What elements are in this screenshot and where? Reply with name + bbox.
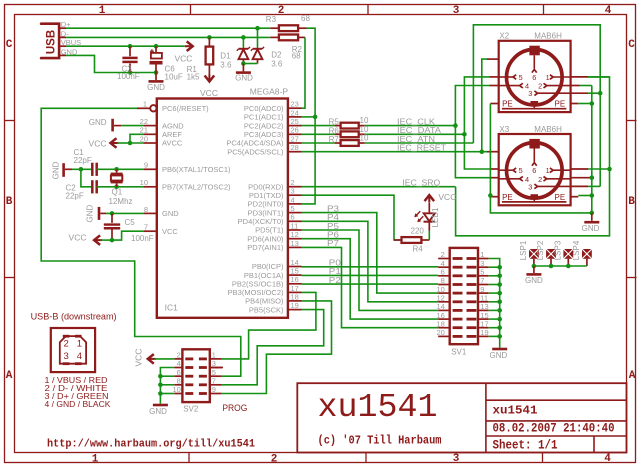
wire SV2 ground link [160, 384, 174, 386]
resistor R1 1k5 pull-up [208, 37, 210, 46]
svg-text:VCC: VCC [438, 192, 456, 202]
wire R3 to IC pin 24 and pin 4 INT0 [302, 28, 316, 204]
junction SV1 ground rail [497, 300, 502, 305]
svg-text:9: 9 [144, 161, 148, 170]
X3 pin 5 lead [499, 169, 513, 171]
IC1 pin 1 PC6(/RESET) [137, 107, 150, 109]
X3 pin 4 lead [499, 178, 520, 180]
SV1 pin 7 right [478, 284, 489, 286]
wire X2 pin3 link [588, 92, 600, 94]
wire X2 pin4 stub entry [490, 85, 499, 87]
svg-text:X3: X3 [499, 125, 509, 134]
svg-text:PB5(SCK): PB5(SCK) [249, 305, 284, 314]
wire MOSI PB3 to SV2 pin1 [222, 292, 316, 359]
svg-text:PD7(AIN1): PD7(AIN1) [247, 243, 284, 252]
svg-text:xu1541: xu1541 [318, 389, 438, 426]
svg-text:4: 4 [177, 359, 181, 368]
X2 shield circle [507, 49, 563, 105]
wire net P1 PB1 to SV1 pin6 [302, 274, 439, 276]
wire SV1 ground rail link [489, 301, 500, 303]
SV1 pin 1 right [478, 258, 489, 260]
svg-text:xu1541: xu1541 [493, 404, 538, 418]
svg-text:P1: P1 [329, 267, 342, 276]
SV1 pin 4 left [438, 266, 450, 268]
svg-text:X2: X2 [499, 32, 509, 41]
vcc arrow below R1 [205, 76, 215, 82]
IC1 pin 15 PB1(OC1A) [288, 274, 302, 276]
wire IEC_CLK from pin 25 [302, 125, 335, 127]
wire C2 to pin 10 XTAL2 [97, 186, 144, 188]
svg-text:VCC: VCC [175, 54, 193, 64]
svg-text:68: 68 [301, 14, 310, 23]
wire IEC_DATA vertical [464, 77, 489, 169]
svg-text:10: 10 [360, 116, 369, 125]
junction SV1 ground rail [497, 282, 502, 287]
svg-text:R7: R7 [329, 135, 340, 144]
svg-text:PB4(MISO): PB4(MISO) [245, 297, 284, 306]
svg-text:PE: PE [502, 100, 513, 109]
USB pin D+ [59, 27, 66, 29]
wire IEC_ATN over X2 [473, 25, 600, 187]
SV2 pin 5 right [210, 375, 222, 377]
wire X2 pin1 to SRQ rail [588, 76, 610, 78]
IC1 pin 5 PD3(INT1) [288, 212, 302, 214]
svg-text:P4: P4 [327, 213, 340, 222]
svg-text:1: 1 [546, 73, 550, 82]
wire IEC_DATA to X2 X3 pin5 [365, 133, 465, 135]
svg-text:PD5(T1): PD5(T1) [255, 226, 284, 235]
IC1 pin 12 PD6(AIN0) [288, 238, 302, 240]
svg-text:PE: PE [555, 193, 566, 202]
wire IEC_SRQ from pin 2 [302, 186, 456, 188]
svg-text:3.6: 3.6 [271, 59, 283, 68]
X3 shield pin [531, 194, 539, 196]
junction PE rail bottom [590, 211, 595, 216]
IC1 pin 23 PC0(ADC0) [288, 107, 302, 109]
ground symbol at AGND pin 22 [111, 119, 114, 132]
svg-text:PE: PE [502, 193, 513, 202]
SV2 pin 9 right [210, 393, 222, 395]
svg-text:1: 1 [99, 5, 106, 17]
svg-text:P3: P3 [327, 204, 340, 213]
X3 pin 2 lead [547, 178, 571, 180]
svg-text:3.6: 3.6 [220, 60, 232, 69]
svg-text:24: 24 [291, 108, 299, 117]
wire PD1 to R4 [302, 195, 402, 240]
junction R1 top on D- [207, 35, 212, 40]
svg-text:LSP1: LSP1 [519, 240, 528, 260]
svg-text:GND: GND [162, 209, 179, 218]
junction C6 bottom [154, 70, 159, 75]
X3 pin6 stub left [487, 151, 499, 153]
SV2 pin 2 left [174, 358, 182, 360]
X2 pin 1 lead [553, 76, 571, 78]
SV1 pin 8 left [438, 284, 450, 286]
USB-B inner shape [60, 336, 86, 364]
wire X2 pin5 stub entry [490, 76, 499, 78]
wire GND down to C2 [81, 169, 91, 187]
wire AREF to AVCC [130, 134, 143, 143]
junction SV1 ground rail [497, 265, 502, 270]
wire R2 to IC pin 23 [302, 37, 306, 108]
wire PE ground rail right [591, 86, 593, 216]
svg-text:B: B [6, 196, 13, 208]
SV1 pin 9 right [478, 292, 489, 294]
junction D+ at pin 24 [313, 115, 318, 120]
X2 pin 3 stub [571, 92, 588, 94]
junction crystal top [114, 167, 119, 172]
svg-text:100nF: 100nF [131, 234, 154, 243]
junction zener anodes [241, 61, 246, 66]
svg-text:AGND: AGND [162, 121, 184, 130]
wire pin 24 stub link [302, 116, 316, 118]
USB-B connector drawing box [51, 328, 95, 372]
USB pin D- [59, 36, 66, 38]
wire SV1 ground rail link [489, 335, 500, 337]
wire IEC_DATA from pin 26 [302, 133, 335, 135]
svg-text:25: 25 [291, 117, 299, 126]
svg-text:R5: R5 [329, 118, 340, 127]
connector X3 MAB6H body [499, 134, 571, 205]
svg-text:1: 1 [143, 100, 147, 109]
zener diode D1 3.6 [242, 37, 244, 47]
ground symbol below LSP1 [533, 266, 535, 273]
svg-text:19: 19 [480, 328, 488, 337]
junction SV1 ground rail [497, 291, 502, 296]
SV2 pin 4 left [174, 367, 182, 369]
svg-text:2: 2 [271, 454, 278, 466]
svg-text:2: 2 [538, 175, 542, 184]
resistor R7 10 [335, 142, 341, 144]
IC1 pin 11 PD5(T1) [288, 229, 302, 231]
svg-text:A: A [629, 370, 636, 382]
svg-text:LED1: LED1 [431, 207, 440, 228]
X2 pin 1 stub [571, 76, 588, 78]
svg-text:13: 13 [291, 239, 299, 248]
svg-text:1: 1 [77, 339, 82, 350]
X3 PE bar [502, 201, 567, 203]
svg-text:VCC: VCC [134, 349, 144, 367]
IC1 pin 7 VCC [143, 230, 157, 232]
wire X3 PE right link [578, 195, 592, 197]
wire SV2 ground link [160, 393, 174, 395]
SV2 pin 6 left [174, 375, 182, 377]
wire SV1 ground rail link [489, 327, 500, 329]
svg-text:A: A [6, 370, 13, 382]
junction LSP1 [532, 264, 537, 269]
vcc arrow above LED1 [425, 195, 435, 201]
svg-text:18: 18 [436, 319, 444, 328]
SV2 pin 1 right [210, 358, 222, 360]
svg-text:MAB6H: MAB6H [534, 32, 562, 41]
svg-text:68: 68 [292, 52, 301, 61]
junction SV1 ground rail [497, 334, 502, 339]
wire X3 pin4 stub entry [490, 177, 499, 179]
IC1 pin 21 AREF [143, 133, 157, 135]
IC1 pin 26 PC3(ADC3) [288, 133, 302, 135]
svg-text:4: 4 [604, 453, 611, 465]
svg-text:LSP3: LSP3 [553, 240, 562, 260]
X3 index notch [529, 139, 539, 149]
resistor R5 10 [335, 125, 341, 127]
junction IEC_ATN at X2 pin3 [598, 91, 603, 96]
svg-text:PD2(INT0): PD2(INT0) [248, 200, 284, 209]
frame column ticks top [190, 5, 192, 15]
vcc arrow at SV2 pin2 [148, 354, 154, 364]
IC U1 MEGA8-P body [157, 99, 288, 318]
svg-text:IC1: IC1 [165, 303, 179, 313]
svg-text:4 / GND / BLACK: 4 / GND / BLACK [45, 399, 111, 409]
wire SV1 ground rail link [489, 318, 500, 320]
wire SCK PB5 to SV2 pin7 [222, 310, 324, 385]
wire net P6 PD6 to SV1 pin16 [302, 239, 439, 319]
svg-text:23: 23 [291, 100, 299, 109]
USB-B pad 4 [75, 362, 82, 365]
X3 pin 1 stub [571, 168, 588, 170]
svg-text:GND: GND [89, 118, 107, 127]
svg-text:1: 1 [480, 250, 484, 259]
svg-text:GND: GND [85, 204, 94, 222]
svg-text:USB: USB [46, 30, 58, 54]
X3 pin 6 lead [533, 149, 535, 162]
svg-text:PC6(/RESET): PC6(/RESET) [162, 104, 209, 113]
IC1 pin 14 PB0(ICP) [288, 266, 302, 268]
capacitor C5 100nF [111, 213, 113, 223]
svg-text:PC1(ADC1): PC1(ADC1) [244, 113, 284, 122]
IC1 pin 20 AVCC [143, 142, 157, 144]
svg-text:(c) '07 Till Harbaum: (c) '07 Till Harbaum [318, 435, 442, 448]
X3 pin 3 stub [571, 185, 588, 187]
X2 pin 2 lead [547, 85, 571, 87]
junction PE rail X2 PE right [590, 101, 595, 106]
capacitor C3 [129, 46, 131, 56]
wire PE rail left side [490, 104, 591, 213]
wire X3 pin3 link [588, 185, 600, 187]
resistor R2 68 [270, 36, 279, 38]
svg-text:7: 7 [212, 377, 216, 386]
SV1 pin 5 right [478, 275, 489, 277]
SV1 pin 2 left [438, 258, 450, 260]
X3 PE pin left [490, 196, 498, 198]
wire net VBUS horizontal [66, 45, 185, 47]
IC1 pin 13 PD7(AIN1) [288, 246, 302, 248]
svg-text:13: 13 [480, 302, 488, 311]
svg-text:R4: R4 [413, 245, 424, 254]
wire C1 to pin 9 XTAL1 [97, 168, 144, 170]
svg-text:2: 2 [278, 5, 285, 17]
svg-text:12Mhz: 12Mhz [109, 197, 133, 206]
X3 pin 1 lead [553, 169, 571, 171]
IC1 pin 17 PB3(MOSI/OC2) [288, 291, 302, 293]
wire R4 to LED cathode [428, 231, 430, 241]
wire IEC_RESET to X2 pin6 [482, 59, 487, 152]
wire IEC_RESET from pin 28 [302, 151, 488, 153]
svg-text:10: 10 [360, 125, 369, 134]
svg-text:MEGA8-P: MEGA8-P [250, 86, 289, 96]
svg-text:3: 3 [453, 5, 460, 17]
svg-text:1k5: 1k5 [187, 72, 200, 81]
resistor R3 68 [270, 27, 279, 29]
X2 pin 2 stub [571, 85, 580, 87]
svg-text:P2: P2 [329, 276, 342, 285]
svg-text:100nF: 100nF [117, 72, 140, 81]
IC1 pin 10 PB7(XTAL2/TOSC2) [143, 186, 157, 188]
svg-text:IEC_RESET: IEC_RESET [397, 144, 446, 153]
USB-B pad 1 [75, 335, 82, 338]
svg-text:1: 1 [92, 454, 99, 466]
svg-text:6: 6 [532, 166, 536, 175]
connector SV1 body [450, 248, 478, 344]
svg-text:5: 5 [480, 268, 484, 277]
wire SV2 ground chain [160, 368, 174, 404]
svg-text:Q1: Q1 [112, 188, 123, 197]
svg-text:17: 17 [480, 319, 488, 328]
X2 pin 6 lead [533, 55, 535, 68]
IC1 pin 6 PD4(XCK/T0) [288, 220, 302, 222]
SV2 pin 8 left [174, 384, 182, 386]
wire MISO PB4 to SV2 pin9 [222, 301, 332, 394]
svg-text:21: 21 [140, 126, 148, 135]
USB connector X1 body [41, 24, 59, 58]
junction SV1 ground rail [497, 274, 502, 279]
X2 index notch [529, 46, 539, 56]
SV1 pin 10 left [438, 292, 450, 294]
junction D1 on D- [241, 35, 246, 40]
SV1 pin 3 right [478, 266, 489, 268]
X2 shield pin [531, 101, 539, 103]
svg-text:C: C [6, 39, 13, 51]
junction IEC_SRQ at X3 pin1 [607, 167, 612, 172]
wire SV1 ground rail link [489, 266, 500, 268]
svg-text:3: 3 [453, 453, 460, 465]
SV1 pin 16 left [438, 318, 450, 320]
IC1 pin 19 PB5(SCK) [288, 309, 302, 311]
SV1 pin 13 right [478, 309, 489, 311]
SV1 pin 17 right [478, 327, 489, 329]
svg-text:18: 18 [291, 292, 299, 301]
SV1 pin 19 right [478, 335, 489, 337]
svg-text:GND: GND [147, 83, 165, 92]
svg-text:LSP2: LSP2 [536, 240, 545, 260]
svg-text:IEC_DATA: IEC_DATA [397, 126, 442, 135]
wire IEC_CLK vertical [455, 86, 489, 178]
ground symbol left of C1 C2 [62, 163, 65, 177]
resistor R4 220 [394, 239, 402, 241]
IC1 pin 27 PC4(ADC4/SDA) [288, 142, 302, 144]
junction SV2 ground chain [158, 391, 163, 396]
svg-text:PB1(OC1A): PB1(OC1A) [244, 271, 284, 280]
svg-text:6: 6 [291, 213, 295, 222]
junction LSP3 [566, 264, 571, 269]
svg-text:6: 6 [441, 268, 445, 277]
svg-text:P7: P7 [327, 239, 340, 248]
IC1 pin 4 PD2(INT0) [288, 203, 302, 205]
wire IEC_ATN to X2 X3 pin3 [365, 142, 474, 144]
svg-text:5: 5 [291, 204, 295, 213]
svg-text:http://www.harbaum.org/till/xu: http://www.harbaum.org/till/xu1541 [47, 439, 255, 451]
wire LSP ground bus [534, 265, 587, 267]
svg-text:P6: P6 [327, 231, 340, 240]
svg-text:PROG: PROG [222, 403, 247, 414]
svg-text:5: 5 [519, 166, 523, 175]
svg-text:9: 9 [212, 385, 216, 394]
frame row ticks right [627, 120, 637, 122]
wire SV2 ground link [160, 375, 174, 377]
svg-text:GND: GND [149, 407, 167, 416]
SV2 pin 3 stub [210, 367, 223, 369]
wire D2 anode to D1 anode [243, 63, 257, 65]
wire net D- horizontal [66, 36, 270, 38]
junction SV2 ground chain [158, 374, 163, 379]
svg-text:3: 3 [528, 182, 532, 191]
solder pad LSP1 [529, 249, 539, 259]
svg-text:28: 28 [291, 143, 299, 152]
X3 PE pin right [571, 196, 579, 198]
SV1 pin 15 right [478, 318, 489, 320]
crystal Q1 12Mhz [116, 169, 118, 172]
svg-text:08.02.2007 21:40:40: 08.02.2007 21:40:40 [493, 422, 615, 436]
svg-text:GND: GND [525, 276, 543, 285]
capacitor C1 22pF [91, 163, 94, 176]
svg-text:20: 20 [140, 134, 148, 143]
connector SV2 body [182, 349, 209, 402]
svg-text:19: 19 [291, 301, 299, 310]
vcc arrow at AVCC pin 20 [111, 138, 117, 148]
wire GND to pin 8 [106, 212, 143, 214]
junction C3 top [128, 44, 133, 49]
svg-text:MAB6H: MAB6H [534, 125, 562, 134]
svg-text:VCC: VCC [69, 233, 87, 243]
vcc arrow at pin 7 net [94, 235, 100, 245]
svg-text:C5: C5 [125, 218, 136, 227]
IC1 pin 3 PD1(TXD) [288, 194, 302, 196]
svg-text:VCC: VCC [89, 138, 107, 148]
svg-text:3: 3 [291, 187, 295, 196]
junction IEC_RESET split [480, 149, 485, 154]
SV1 pin 14 left [438, 309, 450, 311]
SV2 pin 10 left [174, 393, 182, 395]
connector X2 MAB6H body [499, 41, 571, 112]
X2 pin 4 lead [499, 85, 520, 87]
svg-text:10: 10 [436, 285, 444, 294]
svg-text:22pF: 22pF [66, 191, 84, 200]
SV1 pin 11 right [478, 301, 489, 303]
svg-text:PC3(ADC3): PC3(ADC3) [244, 130, 284, 139]
svg-text:SV2: SV2 [183, 405, 199, 414]
IC1 pin 22 AGND [143, 125, 157, 127]
wire SV1 odd pins ground rail [489, 259, 500, 348]
svg-text:VCC: VCC [162, 227, 178, 236]
svg-text:9: 9 [480, 285, 484, 294]
svg-text:22pF: 22pF [74, 156, 92, 165]
USB-B pad 2 [63, 335, 70, 338]
svg-text:2: 2 [538, 82, 542, 91]
wire IEC_CLK to X2 X3 pin4 [365, 125, 456, 127]
junction C6 top [154, 44, 159, 49]
ground symbol below SV2 [153, 404, 168, 407]
USB pin GND [59, 54, 66, 56]
svg-text:PD1(TXD): PD1(TXD) [249, 191, 284, 200]
zener diode D2 3.6 [257, 28, 259, 48]
svg-text:8: 8 [177, 377, 181, 386]
svg-text:15: 15 [291, 267, 299, 276]
LED LED1 [428, 222, 430, 231]
svg-text:SV1: SV1 [451, 347, 467, 356]
capacitor C6 polarized [155, 46, 157, 53]
svg-text:20: 20 [436, 328, 444, 337]
svg-text:2: 2 [441, 250, 445, 259]
junction PE rail X3 PE left [488, 193, 493, 198]
